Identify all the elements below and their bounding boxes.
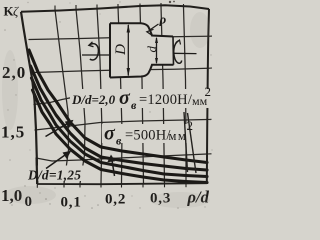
svg-text:ζ: ζ [13, 3, 19, 18]
shaft body fill [110, 23, 174, 77]
curve C2: D/d=2.0, sigma=500 [31, 66, 208, 170]
scan crease artifact lines lower right [184, 112, 196, 173]
leader arrow A3 to label sigma=500 [107, 155, 115, 177]
text row 1 background [70, 89, 213, 108]
chart frame: bottom axis [37, 183, 207, 184]
svg-text:ρ: ρ [159, 12, 167, 27]
dimension D arrow [127, 24, 130, 77]
left axis segment over row3 [35, 158, 38, 184]
gridline x=0.15 [97, 9, 102, 184]
chart frame: left axis [21, 12, 37, 184]
inset shaft diagram [82, 12, 197, 78]
dimension d arrow [155, 37, 158, 64]
svg-text:D: D [113, 44, 129, 56]
torque symbol left: curl arrow [90, 44, 99, 60]
text row 2 background [102, 124, 196, 143]
gridline x=0.20 [118, 7, 122, 184]
gridline K=1.25 [36, 154, 207, 161]
gridline x=0.25 [140, 7, 144, 184]
svg-text:=500Н/: =500Н/ [125, 128, 171, 144]
grid vertical lines [55, 6, 186, 184]
gridline x=0.05 [55, 10, 69, 184]
svg-text:в: в [116, 134, 122, 148]
torque symbol left: axis line [82, 54, 110, 56]
paper background [0, 0, 214, 211]
scan speckles [4, 1, 212, 209]
svg-text:=1200Н/: =1200Н/ [139, 92, 193, 108]
curve C4: D/d=1.25, sigma=500 [33, 90, 208, 183]
gridline K=1.5 [35, 120, 207, 131]
gridline K=1.75 [34, 98, 72, 105]
gridline x=0.30 [161, 6, 165, 184]
svg-text:σ: σ [104, 123, 116, 145]
svg-text:D/d=1,25: D/d=1,25 [27, 168, 81, 183]
grid horizontal lines [29, 36, 208, 161]
svg-text:0,2: 0,2 [105, 192, 126, 208]
curve C1: D/d=2.0, sigma=1200 [29, 50, 207, 163]
chart frame: top [21, 5, 209, 12]
ticks right of frame [207, 36, 212, 154]
torque symbol right: axis line [173, 52, 197, 54]
svg-text:D/d=2,0: D/d=2,0 [71, 92, 116, 107]
svg-text:2: 2 [205, 84, 212, 99]
shaft outline big cylinder [110, 23, 174, 77]
svg-text:в: в [131, 98, 137, 112]
gridline x=0.35 [184, 7, 187, 183]
svg-text:σ: σ [119, 87, 131, 109]
gridline x=0.10 [76, 9, 85, 184]
shaft right end face [172, 37, 175, 65]
ticks below bottom axis [37, 184, 186, 188]
curve C3: D/d=1.25, sigma=1200 [32, 78, 208, 177]
svg-text:0,1: 0,1 [61, 195, 82, 211]
chart frame: right [207, 9, 209, 184]
gridline K=2.0 [33, 68, 208, 72]
gridline K=2.25 [29, 36, 208, 39]
leader arrow A1 to label D/d=2,0 [46, 120, 74, 137]
leader arrow A2 for D/d=1,25 [46, 151, 71, 169]
text row 3 background [26, 166, 84, 182]
svg-text:d: d [144, 46, 159, 53]
ticks above top frame [55, 3, 184, 9]
torque symbol right: curl arrow [174, 41, 182, 63]
shaft left face [109, 23, 111, 77]
faint scan mottle [2, 12, 210, 208]
